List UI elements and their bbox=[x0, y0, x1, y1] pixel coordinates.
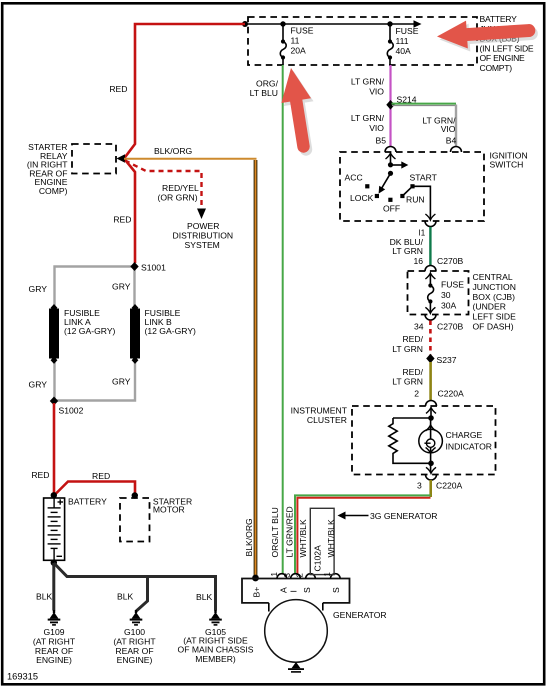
svg-text:S1002: S1002 bbox=[59, 406, 84, 416]
svg-text:RED/YEL: RED/YEL bbox=[162, 183, 199, 193]
svg-text:(12 GA-GRY): (12 GA-GRY) bbox=[64, 326, 116, 336]
svg-text:BATTERY: BATTERY bbox=[480, 14, 518, 24]
svg-text:C102A: C102A bbox=[312, 545, 322, 572]
svg-text:LT GRN: LT GRN bbox=[392, 344, 423, 354]
svg-text:WHT/BLK: WHT/BLK bbox=[298, 519, 308, 557]
svg-text:2: 2 bbox=[414, 389, 419, 399]
svg-text:1: 1 bbox=[270, 572, 279, 577]
svg-text:COMP): COMP) bbox=[39, 186, 68, 196]
svg-text:(UNDER: (UNDER bbox=[473, 302, 506, 312]
svg-text:111: 111 bbox=[396, 36, 409, 46]
svg-text:LT GRN/RED: LT GRN/RED bbox=[284, 506, 294, 557]
svg-text:CLUSTER: CLUSTER bbox=[307, 415, 347, 425]
svg-text:GRY: GRY bbox=[29, 380, 48, 390]
svg-text:3G GENERATOR: 3G GENERATOR bbox=[370, 511, 438, 521]
svg-text:OF ENGINE: OF ENGINE bbox=[480, 53, 526, 63]
svg-text:BATTERY: BATTERY bbox=[68, 497, 107, 507]
svg-text:2: 2 bbox=[296, 573, 305, 578]
svg-text:ENGINE): ENGINE) bbox=[36, 655, 72, 665]
svg-text:MEMBER): MEMBER) bbox=[195, 654, 236, 664]
svg-text:POWER: POWER bbox=[187, 221, 219, 231]
svg-text:BLK: BLK bbox=[36, 592, 53, 602]
svg-text:SYSTEM: SYSTEM bbox=[185, 240, 220, 250]
svg-text:VIO: VIO bbox=[441, 124, 456, 134]
svg-text:ENGINE): ENGINE) bbox=[117, 655, 153, 665]
svg-text:S237: S237 bbox=[437, 355, 457, 365]
svg-text:16: 16 bbox=[413, 256, 423, 266]
svg-text:C220A: C220A bbox=[438, 389, 465, 399]
svg-text:BOX (CJB): BOX (CJB) bbox=[473, 292, 516, 302]
svg-text:RED: RED bbox=[109, 84, 127, 94]
svg-text:GRY: GRY bbox=[112, 282, 131, 292]
svg-text:CENTRAL: CENTRAL bbox=[473, 272, 513, 282]
svg-text:BLK/ORG: BLK/ORG bbox=[154, 146, 193, 156]
svg-text:B4: B4 bbox=[446, 136, 457, 146]
svg-text:I: I bbox=[289, 590, 299, 592]
svg-text:OF DASH): OF DASH) bbox=[473, 321, 514, 331]
svg-text:RED/: RED/ bbox=[402, 367, 423, 377]
svg-text:START: START bbox=[410, 172, 438, 182]
svg-text:S: S bbox=[302, 587, 312, 593]
svg-text:RED/: RED/ bbox=[402, 334, 423, 344]
svg-text:40A: 40A bbox=[396, 46, 412, 56]
svg-text:(OR GRN): (OR GRN) bbox=[158, 193, 198, 203]
svg-text:(12 GA-GRY): (12 GA-GRY) bbox=[145, 326, 197, 336]
svg-text:INSTRUMENT: INSTRUMENT bbox=[291, 405, 348, 415]
svg-text:S1001: S1001 bbox=[141, 263, 166, 273]
svg-text:LEFT SIDE: LEFT SIDE bbox=[473, 311, 517, 321]
svg-text:GRY: GRY bbox=[29, 284, 48, 294]
svg-text:VIO: VIO bbox=[369, 87, 384, 97]
svg-text:BLK: BLK bbox=[196, 592, 213, 602]
svg-text:LT GRN/: LT GRN/ bbox=[351, 77, 385, 87]
svg-text:169315: 169315 bbox=[7, 671, 38, 681]
svg-text:34: 34 bbox=[414, 322, 424, 332]
svg-text:ACC: ACC bbox=[345, 173, 363, 183]
svg-text:LOCK: LOCK bbox=[350, 193, 374, 203]
svg-text:CHARGE: CHARGE bbox=[446, 430, 483, 440]
svg-text:30A: 30A bbox=[441, 301, 457, 311]
svg-text:C270B: C270B bbox=[437, 322, 464, 332]
svg-text:C270B: C270B bbox=[437, 256, 464, 266]
svg-text:RUN: RUN bbox=[406, 195, 425, 205]
svg-text:WHT/BLK: WHT/BLK bbox=[326, 519, 336, 557]
svg-text:20A: 20A bbox=[291, 46, 307, 56]
svg-text:3: 3 bbox=[283, 573, 292, 578]
svg-text:30: 30 bbox=[441, 290, 451, 300]
svg-text:S: S bbox=[331, 587, 341, 593]
svg-text:RED: RED bbox=[92, 471, 110, 481]
svg-text:A: A bbox=[278, 587, 288, 593]
svg-text:3: 3 bbox=[417, 481, 422, 491]
svg-text:LT GRN: LT GRN bbox=[392, 376, 423, 386]
svg-text:B+: B+ bbox=[252, 587, 262, 598]
svg-text:LT GRN/: LT GRN/ bbox=[351, 113, 385, 123]
svg-text:COMPT): COMPT) bbox=[480, 63, 513, 73]
svg-text:ORG/: ORG/ bbox=[256, 79, 279, 89]
svg-text:FUSE: FUSE bbox=[441, 280, 464, 290]
svg-text:MOTOR: MOTOR bbox=[153, 505, 185, 515]
svg-text:11: 11 bbox=[291, 36, 300, 46]
svg-text:1: 1 bbox=[323, 572, 332, 577]
svg-text:RED: RED bbox=[113, 215, 131, 225]
svg-text:(IN LEFT SIDE: (IN LEFT SIDE bbox=[480, 43, 534, 53]
svg-text:FUSE: FUSE bbox=[291, 26, 314, 36]
svg-text:B5: B5 bbox=[375, 136, 386, 146]
svg-text:OFF: OFF bbox=[383, 203, 400, 213]
svg-text:GENERATOR: GENERATOR bbox=[333, 610, 387, 620]
svg-text:BLK: BLK bbox=[117, 592, 134, 602]
svg-text:JUNCTION: JUNCTION bbox=[473, 282, 516, 292]
svg-text:INDICATOR: INDICATOR bbox=[446, 441, 492, 451]
svg-text:LT GRN: LT GRN bbox=[392, 246, 423, 256]
svg-text:LT BLU: LT BLU bbox=[250, 88, 278, 98]
svg-text:VIO: VIO bbox=[369, 123, 384, 133]
svg-text:GRY: GRY bbox=[112, 377, 131, 387]
svg-text:C220A: C220A bbox=[436, 481, 463, 491]
svg-text:DISTRIBUTION: DISTRIBUTION bbox=[173, 231, 234, 241]
svg-text:ORG/LT BLU: ORG/LT BLU bbox=[270, 507, 280, 557]
svg-text:SWITCH: SWITCH bbox=[490, 160, 524, 170]
svg-text:BLK/ORG: BLK/ORG bbox=[244, 518, 254, 557]
svg-text:FUSE: FUSE bbox=[396, 26, 419, 36]
svg-text:RED: RED bbox=[31, 470, 49, 480]
